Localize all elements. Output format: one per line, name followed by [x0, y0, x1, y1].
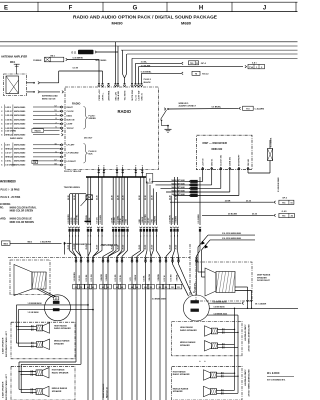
svg-text:D+ 61: D+ 61: [135, 94, 137, 100]
svg-text:M4/1: M4/1: [10, 61, 16, 64]
svg-text:R2: R2: [171, 287, 173, 289]
svg-text:INTERRUPT: INTERRUPT: [239, 154, 241, 166]
svg-text:1 RD: 1 RD: [152, 219, 154, 224]
label middle range speaker 2: [52, 387, 68, 393]
svg-text:0.5 W/BL: 0.5 W/BL: [117, 215, 119, 224]
svg-text:25.30: 25.30: [246, 200, 252, 202]
svg-text:1.5 GY/RD: 1.5 GY/RD: [145, 214, 147, 224]
leads high range right 1: [218, 328, 239, 333]
plug I brace: [84, 107, 88, 130]
lower harness vertical wires: [76, 256, 179, 400]
svg-text:H: H: [199, 5, 203, 11]
wire radio pin to connector T61 11: [136, 62, 184, 83]
svg-text:7: 7: [55, 122, 56, 124]
svg-text:1 BK: 1 BK: [139, 219, 141, 224]
svg-text:GND 31: GND 31: [141, 92, 143, 100]
svg-text:TOP/LP: TOP/LP: [67, 128, 75, 130]
antenna connector stub: [14, 64, 20, 74]
svg-text:25 BL/BN: 25 BL/BN: [228, 214, 237, 216]
svg-text:0.5 GN/BK: 0.5 GN/BK: [270, 137, 272, 147]
label high range radio speaker 2: [52, 369, 69, 375]
leads middle range right 1: [218, 343, 239, 348]
svg-text:6: 6: [55, 127, 56, 129]
connector box M4/2: [2, 241, 11, 245]
svg-text:FM: FM: [150, 178, 152, 181]
svg-text:BN/W, 182 CM: BN/W, 182 CM: [42, 98, 56, 100]
svg-text:10: 10: [54, 110, 56, 112]
svg-text:GALA SIG: GALA SIG: [117, 90, 120, 100]
radio plug IV pins: [98, 163, 144, 177]
svg-text:ANTENNA AMPLIFIER: ANTENNA AMPLIFIER: [1, 55, 27, 58]
svg-text:PLUG III: PLUG III: [89, 151, 97, 153]
connector row upper: [68, 227, 201, 251]
svg-text:0.5 BN/BK M4/90: 0.5 BN/BK M4/90: [152, 298, 166, 301]
svg-text:C1: C1: [75, 287, 77, 289]
label 2-way speaker left 1: [1, 330, 7, 357]
leads middle range right 2: [217, 389, 239, 394]
radio unit box: [65, 87, 159, 170]
svg-text:0.5 BN/BK 25/26: 0.5 BN/BK 25/26: [214, 313, 228, 315]
bus line 4: [127, 53, 298, 55]
svg-text:M4/90/M680: M4/90/M680: [0, 179, 16, 183]
label rear speaker note vertical: [102, 383, 108, 398]
svg-text:0.35 GN: 0.35 GN: [5, 115, 13, 117]
svg-text:25.30: 25.30: [86, 195, 88, 200]
wire antenna lead: [27, 91, 64, 94]
svg-text:0.75 RD: 0.75 RD: [115, 274, 117, 282]
svg-text:25.30: 25.30: [111, 195, 113, 200]
svg-text:W. CODER: W. CODER: [255, 304, 266, 306]
wires harness to left box 2: [19, 362, 81, 375]
svg-text:25.30: 25.30: [169, 195, 171, 200]
svg-text:LF LEFT: LF LEFT: [67, 145, 76, 147]
high range radio speaker right 2: [210, 372, 216, 378]
wires door speaker to code line: [235, 287, 253, 309]
tag TW: [32, 160, 38, 164]
label PLUG III BLK: [89, 151, 97, 156]
svg-text:SHIELD: SHIELD: [5, 135, 13, 137]
svg-text:SPEAKER: SPEAKER: [173, 390, 183, 393]
svg-text:RIGHT: RIGHT: [67, 107, 74, 109]
svg-text:TWISTED WIRES: TWISTED WIRES: [64, 187, 81, 189]
svg-text:INSTRUMENT PANEL LEFT: INSTRUMENT PANEL LEFT: [5, 373, 8, 400]
svg-text:C1: C1: [80, 287, 82, 289]
svg-text:C ELEK/FM: C ELEK/FM: [40, 242, 51, 244]
svg-text:0.5 K: 0.5 K: [5, 145, 10, 147]
DSP receiver box: [197, 135, 253, 170]
polarity marks between right boxes: [199, 359, 206, 363]
svg-text:CLOCK SIG: CLOCK SIG: [221, 154, 223, 166]
svg-text:G: G: [133, 5, 138, 11]
svg-text:PLUG II - 20 PINS: PLUG II - 20 PINS: [1, 196, 21, 199]
svg-text:2-WAY SPEAKER: 2-WAY SPEAKER: [1, 381, 4, 398]
wire destination tags: [73, 284, 182, 289]
svg-text:0.35 GY: 0.35 GY: [5, 124, 13, 126]
wire table 2 column rules: [4, 143, 13, 167]
svg-text:0.5 GN/BK: 0.5 GN/BK: [198, 214, 200, 224]
svg-text:M4/90-M680: M4/90-M680: [14, 110, 26, 113]
note decoding block: [0, 204, 37, 224]
svg-text:M4/90-M680: M4/90-M680: [14, 164, 26, 167]
wire to speedometer: [10, 242, 72, 254]
svg-text:0.5 BK/GN M680: 0.5 BK/GN M680: [278, 177, 280, 192]
svg-text:RADIO M4/90: RADIO M4/90: [10, 137, 23, 140]
svg-text:SPEEDOMETER A: SPEEDOMETER A: [73, 243, 91, 246]
DSP stair wires with inline connectors: [152, 170, 239, 197]
svg-text:INSTRUMENT PANEL LEFT: INSTRUMENT PANEL LEFT: [5, 330, 8, 357]
svg-text:J: J: [263, 5, 266, 11]
label 2-way speaker right 1: [244, 325, 250, 353]
svg-text:ON SIG: ON SIG: [248, 159, 250, 166]
wire to junction circle right: [195, 256, 197, 295]
svg-text:LF GROUND: LF GROUND: [67, 153, 79, 155]
svg-text:LIGHT: LIGHT: [67, 124, 74, 126]
wire circle right out 2: [209, 308, 298, 309]
svg-text:MUTE GND: MUTE GND: [132, 89, 134, 100]
svg-text:0.75 GN: 0.75 GN: [91, 274, 93, 282]
svg-text:2-WAY SPEAKER: 2-WAY SPEAKER: [244, 325, 247, 342]
svg-text:0.5 BL: 0.5 BL: [5, 161, 12, 163]
bus line 3: [121, 49, 298, 51]
svg-text:0.35 K: 0.35 K: [5, 107, 11, 109]
svg-text:1 GN/BK: 1 GN/BK: [176, 215, 178, 223]
svg-text:1.5 BK: 1.5 BK: [111, 217, 113, 224]
wire door right 2: [202, 240, 256, 277]
svg-text:25.30: 25.30: [139, 195, 141, 200]
svg-text:1 GN/BK: 1 GN/BK: [106, 273, 108, 281]
svg-text:MIDDLE RANGE: MIDDLE RANGE: [52, 387, 68, 390]
svg-text:ANTENNA: ANTENNA: [107, 90, 110, 100]
svg-text:ALARM CONTACT: ALARM CONTACT: [179, 105, 197, 108]
wire table plug III rows: [1, 143, 63, 166]
bus line 2: [0, 45, 298, 47]
svg-text:0.5 BK/W: 0.5 BK/W: [169, 215, 171, 223]
junction connector circle left: [45, 295, 71, 321]
svg-text:1 RD/BK: 1 RD/BK: [158, 273, 160, 281]
DSP bottom pins: [202, 167, 250, 170]
svg-text:M4/90-M680: M4/90-M680: [14, 134, 26, 137]
svg-text:M4/90 NET M680: M4/90 NET M680: [172, 189, 185, 192]
wire antenna amp output 1: [27, 71, 103, 84]
label high range speaker right 2: [173, 370, 190, 376]
svg-text:R1: R1: [150, 287, 152, 289]
label middle range speaker right 2: [173, 387, 189, 393]
svg-text:E: E: [4, 5, 8, 11]
label M4/3 C ELEK/FM: [28, 241, 52, 244]
svg-text:F: F: [69, 5, 73, 11]
svg-text:DATA: DATA: [67, 114, 73, 117]
svg-text:9: 9: [55, 114, 56, 116]
suppressor component: [268, 140, 273, 161]
svg-text:CLOCK: CLOCK: [67, 111, 75, 113]
svg-text:1.5 GY: 1.5 GY: [148, 217, 150, 224]
wire fuse to radio pin: [66, 58, 99, 83]
svg-text:L1: L1: [87, 287, 89, 289]
label PLUG I GREEN: [89, 115, 97, 120]
harness fan wires: [70, 251, 200, 257]
svg-text:DATA SIG: DATA SIG: [229, 156, 232, 166]
svg-text:1.5 RD/W: 1.5 RD/W: [86, 215, 88, 223]
leads high range right 2: [217, 372, 239, 393]
svg-text:M4/90 NET M680: M4/90 NET M680: [172, 179, 185, 182]
svg-text:R1: R1: [159, 287, 161, 289]
wire through circle left 1: [17, 304, 89, 343]
svg-text:LIGHT SW: LIGHT SW: [138, 91, 140, 101]
svg-text:M680-662: M680-662: [212, 148, 223, 151]
antenna amplifier M4/1 box: [4, 74, 27, 96]
connector box T14: [248, 64, 265, 68]
svg-text:RADIO: RADIO: [72, 102, 80, 106]
wire DSP pin 6 to suppressor: [248, 161, 270, 174]
svg-text:+12V 30: +12V 30: [203, 158, 205, 166]
label high range radio speaker 1: [54, 324, 71, 330]
label 2-way speaker right 2: [244, 370, 250, 398]
wire radio pin to connector T14: [139, 65, 247, 83]
svg-text:PERM +12V: PERM +12V: [99, 89, 101, 101]
2-way speaker front panel left box 2: [11, 366, 75, 400]
svg-text:MIDDLE RANGE: MIDDLE RANGE: [173, 387, 189, 390]
connector box T6: [192, 71, 200, 75]
svg-text:RADIO SPEAKER: RADIO SPEAKER: [52, 371, 69, 374]
svg-text:L2: L2: [107, 287, 109, 289]
label 23 BR 25.30: [225, 200, 252, 202]
svg-text:M680 COLOR BROWN: M680 COLOR BROWN: [10, 222, 35, 224]
svg-text:DIG OUT: DIG OUT: [84, 138, 93, 140]
svg-text:17: 17: [54, 160, 56, 162]
svg-text:SHIELD: SHIELD: [5, 149, 13, 151]
svg-text:25.30: 25.30: [145, 195, 147, 200]
svg-text:GND 31: GND 31: [212, 158, 214, 166]
radio top edge pins plug II: [98, 83, 143, 87]
svg-text:1.5 BN: 1.5 BN: [114, 217, 116, 224]
svg-text:0.5 GN: 0.5 GN: [97, 217, 99, 224]
svg-text:M680 COLOR GREEN: M680 COLOR GREEN: [10, 211, 34, 213]
door boundary vertical: [189, 244, 191, 296]
radio top pin labels: [99, 89, 144, 101]
svg-text:25.30: 25.30: [117, 195, 119, 200]
svg-text:RADIO-DIS: RADIO-DIS: [80, 51, 91, 54]
svg-text:ANTENNA LEAD: ANTENNA LEAD: [42, 95, 58, 98]
svg-text:2-WAY SPEAKER: 2-WAY SPEAKER: [244, 370, 247, 387]
svg-text:FUSIBLE: FUSIBLE: [33, 60, 42, 62]
wire harness pair into circle right: [173, 264, 193, 296]
body boundary dash-dot: [8, 257, 190, 259]
svg-text:2: 2: [194, 310, 195, 312]
svg-text:HIGH RANGE: HIGH RANGE: [180, 326, 193, 329]
wire pair merge to bus lines 3 and 4: [123, 50, 127, 83]
leads high range left 2: [18, 370, 36, 392]
svg-text:0.75 W: 0.75 W: [164, 275, 166, 281]
svg-text:1 GY: 1 GY: [130, 276, 132, 281]
amplifier wire gauge labels: [68, 214, 200, 224]
wires subwoofer to junction circle: [37, 289, 57, 298]
high range radio speaker left 2: [36, 370, 42, 376]
label wire w/o alarm contact: [179, 103, 197, 108]
svg-text:LF RIGHT: LF RIGHT: [67, 161, 77, 163]
svg-text:HIGH RANGE: HIGH RANGE: [173, 370, 186, 373]
svg-text:M4/90 NET M680: M4/90 NET M680: [172, 193, 185, 196]
svg-text:0.35 RD: 0.35 RD: [5, 128, 13, 130]
svg-text:L3: L3: [116, 287, 118, 289]
svg-text:M4/90-M680: M4/90-M680: [14, 148, 26, 151]
svg-text:DECODING: DECODING: [0, 204, 11, 206]
svg-text:M4/90: M4/90: [111, 21, 123, 26]
svg-text:1: 1: [194, 302, 195, 304]
svg-text:1 BK/W: 1 BK/W: [142, 217, 144, 224]
svg-text:8: 8: [55, 118, 56, 120]
header grid frame: [0, 2, 298, 11]
svg-text:0.5 GY/BL: 0.5 GY/BL: [77, 214, 79, 224]
small box FM: [146, 174, 153, 184]
svg-text:M4/90 NET M680: M4/90 NET M680: [172, 186, 185, 189]
amplifier wire upper labels: [68, 195, 178, 200]
middle range speaker right 1: [211, 343, 217, 349]
wire through circle left 2: [18, 309, 94, 346]
svg-text:DSP — RECEIVER: DSP — RECEIVER: [203, 141, 227, 145]
svg-text:NOT CONTAINED IN M.: NOT CONTAINED IN M.: [267, 379, 286, 382]
svg-text:0.5 BN/BK M4/90: 0.5 BN/BK M4/90: [213, 300, 227, 303]
svg-text:M4/90-M680: M4/90-M680: [14, 106, 26, 109]
label high range speaker right 1: [180, 326, 197, 332]
note W.L E-BOX: [267, 372, 294, 382]
wire circle right out 3: [208, 314, 239, 316]
svg-text:PART 577 87: PART 577 87: [105, 387, 108, 398]
svg-text:1 BL/GN: 1 BL/GN: [149, 273, 151, 281]
svg-text:RADIO: RADIO: [35, 130, 42, 133]
shield terminal assembly: [70, 194, 93, 222]
svg-text:0.5 BK M4/90: 0.5 BK M4/90: [214, 306, 225, 309]
svg-text:27: 27: [55, 298, 57, 300]
label 2-way speaker left 2: [1, 373, 7, 400]
wire door right 1: [198, 235, 255, 272]
deep range speaker door left box: [10, 260, 50, 295]
svg-text:L3: L3: [121, 287, 123, 289]
svg-text:1.5 BK/BN: 1.5 BK/BN: [74, 272, 76, 282]
svg-text:1.5 BK: 1.5 BK: [89, 217, 91, 224]
svg-text:1 BK/RD: 1 BK/RD: [101, 273, 103, 281]
svg-text:GP 4: GP 4: [201, 62, 207, 65]
wire vertical to bus line 5: [131, 58, 133, 83]
svg-text:BLACK: BLACK: [144, 81, 152, 84]
leads middle range left 1: [17, 342, 37, 348]
svg-text:BOARD:: BOARD:: [0, 218, 6, 221]
svg-text:H3 4.2: H3 4.2: [202, 73, 209, 76]
svg-text:0.35 BL: 0.35 BL: [5, 119, 13, 121]
svg-text:RADIO: RADIO: [118, 109, 132, 114]
svg-text:M4/90 NET M680: M4/90 NET M680: [172, 182, 185, 185]
radio plug III pins: [60, 144, 62, 166]
svg-text:12: 12: [54, 106, 56, 108]
svg-text:25.30: 25.30: [68, 195, 70, 200]
svg-text:SHIELD: SHIELD: [5, 157, 13, 159]
2-way speaker instrument panel right box 1: [172, 321, 242, 355]
svg-text:0.5 BK/BL: 0.5 BK/BL: [212, 107, 222, 109]
svg-text:18: 18: [54, 164, 56, 166]
middle range speaker right 2: [210, 389, 216, 395]
amplifier harness vertical wires: [70, 177, 200, 225]
svg-text:HIGH RANGE: HIGH RANGE: [52, 369, 65, 372]
wire vertical to bus line 2: [117, 46, 119, 83]
wire 23 BR to connector GP 4: [170, 201, 276, 204]
DSP pin labels: [203, 154, 250, 166]
svg-text:RADIO SPEAKER: RADIO SPEAKER: [54, 327, 71, 330]
connector box T61 11: [189, 61, 199, 65]
wire table column rules: [4, 105, 13, 137]
svg-text:M4/90-M680: M4/90-M680: [14, 160, 26, 163]
svg-text:0.5 BK/RD: 0.5 BK/RD: [68, 214, 70, 224]
svg-text:C ALARM: C ALARM: [255, 108, 265, 111]
svg-text:0.35 BN/BL: 0.35 BN/BL: [141, 71, 152, 73]
svg-text:2.5L 25/30 M4/90-M680: 2.5L 25/30 M4/90-M680: [222, 232, 241, 235]
wire RADIO-DIS to vertical: [97, 51, 119, 53]
radio plug III pin names: [67, 145, 79, 163]
svg-text:PLUG I: PLUG I: [89, 115, 96, 117]
svg-text:L2: L2: [102, 287, 104, 289]
svg-text:MIDDLE RANGE: MIDDLE RANGE: [180, 341, 196, 344]
high range radio speaker right 1: [211, 328, 217, 334]
switch contact: [161, 108, 169, 127]
svg-text:0.75 BK: 0.75 BK: [86, 274, 88, 282]
radio plug I pin names: [67, 107, 75, 130]
svg-text:MIDDLE RANGE: MIDDLE RANGE: [54, 340, 70, 343]
svg-text:SP RK +: SP RK +: [102, 92, 104, 101]
amplifier wire destination labels: [68, 245, 178, 250]
svg-text:M4/90-M680: M4/90-M680: [14, 152, 26, 155]
svg-text:25.30: 25.30: [97, 195, 99, 200]
svg-text:DEEP RANGE: DEEP RANGE: [257, 274, 271, 277]
svg-text:INSTRUMENT PANEL RIGHT: INSTRUMENT PANEL RIGHT: [247, 370, 250, 398]
svg-text:RADIO AND AUDIO OPTION PACK /: RADIO AND AUDIO OPTION PACK / DIGITAL SO…: [73, 15, 217, 20]
svg-text:BLK: BLK: [89, 154, 94, 156]
high range radio speaker left 1: [37, 325, 43, 331]
svg-text:1 BK/GN: 1 BK/GN: [122, 215, 124, 223]
plug III brace: [84, 144, 88, 164]
svg-text:M4/90-M680: M4/90-M680: [14, 114, 26, 117]
svg-text:L1: L1: [92, 287, 94, 289]
connector row lower: [75, 257, 198, 262]
wire switch to T61 alarm: [168, 107, 241, 110]
svg-text:M4/90-M680: M4/90-M680: [14, 118, 26, 121]
label middle range speaker right 1: [180, 341, 196, 347]
inverse tag RADIO-DIS: [78, 50, 97, 55]
svg-text:M680: M680: [181, 21, 192, 26]
middle range speaker left 2: [36, 389, 42, 395]
label antenna lead: [42, 95, 58, 101]
svg-text:M4/90 COLOR BLUE: M4/90 COLOR BLUE: [10, 218, 33, 221]
svg-text:SPEAKER: SPEAKER: [180, 344, 190, 347]
wire circle right to W coder: [209, 302, 244, 305]
middle range speaker left 1: [37, 341, 43, 347]
svg-text:0.5 BK: 0.5 BK: [173, 217, 175, 224]
wire radio pin to connector T6: [142, 72, 184, 83]
ground at switch: [165, 126, 172, 133]
svg-text:25.30: 25.30: [252, 214, 258, 216]
svg-text:REAR SPEAKER: REAR SPEAKER: [102, 383, 105, 398]
svg-text:23 BR: 23 BR: [225, 200, 231, 202]
svg-text:SPEAKER: SPEAKER: [54, 342, 64, 345]
lower wire gauge labels: [74, 272, 196, 293]
svg-text:1 GN: 1 GN: [126, 218, 128, 223]
label 25 BL/BN 25.30: [228, 214, 258, 216]
svg-text:G 4.5: G 4.5: [282, 210, 288, 213]
2-way speaker instrument panel right box 2: [172, 366, 242, 400]
svg-text:0.75 BL: 0.75 BL: [120, 274, 122, 282]
wire table plug I rows: [1, 106, 63, 130]
svg-text:RADIO SPEAKER: RADIO SPEAKER: [180, 329, 197, 332]
svg-text:0.5 RD: 0.5 RD: [71, 217, 73, 224]
svg-text:PLUG IV YELLOW: PLUG IV YELLOW: [64, 171, 81, 173]
deep range speaker door left: [14, 265, 47, 296]
